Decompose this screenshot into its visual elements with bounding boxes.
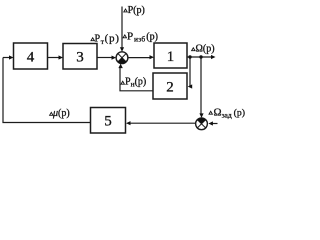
svg-text:μ(p): μ(p)	[52, 108, 70, 119]
svg-text:(p): (p)	[146, 32, 158, 43]
svg-text:(p): (p)	[105, 33, 120, 45]
svg-text:Ω: Ω	[214, 106, 222, 118]
svg-text:изб: изб	[134, 34, 145, 43]
svg-text:(p): (p)	[234, 107, 245, 118]
svg-text:Pн(p): Pн(p)	[125, 77, 146, 89]
svg-text:2: 2	[166, 79, 174, 95]
svg-text:4: 4	[27, 49, 35, 65]
svg-text:1: 1	[167, 49, 175, 65]
svg-text:P: P	[95, 34, 101, 45]
svg-text:P: P	[127, 31, 133, 43]
svg-text:P(p): P(p)	[128, 5, 145, 16]
svg-text:3: 3	[76, 50, 84, 66]
svg-text:зад: зад	[222, 110, 232, 119]
svg-text:Ω(p): Ω(p)	[196, 44, 215, 55]
svg-text:5: 5	[104, 114, 112, 130]
